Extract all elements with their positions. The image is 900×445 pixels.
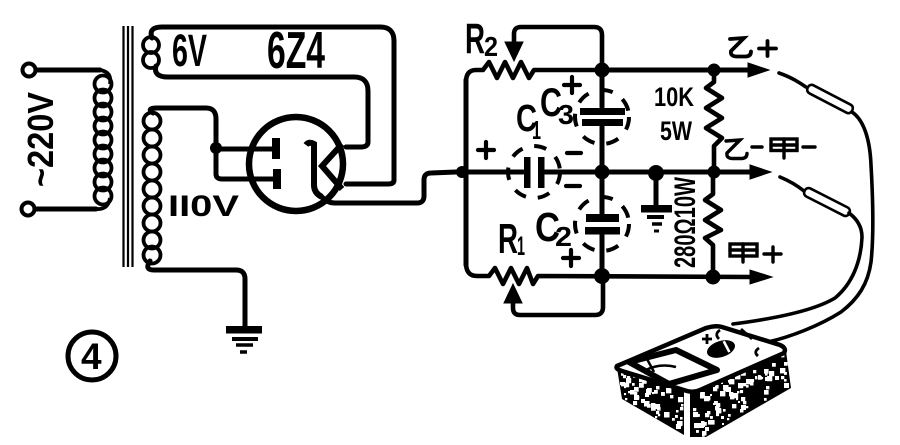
left rail: [464, 80, 469, 265]
ground filter: [641, 205, 672, 231]
svg-text:R: R: [498, 215, 518, 262]
meter terminal arc 2: [756, 348, 759, 356]
ground under transformer: [226, 326, 262, 352]
transformer 6V winding: [143, 37, 159, 68]
svg-text:5W: 5W: [660, 116, 692, 146]
wire node A to tube anode 2: [216, 148, 274, 179]
arrow output B+: [748, 63, 769, 77]
wire 6V top loop to tube plate lower arm: [151, 27, 394, 184]
multimeter top face: [617, 326, 785, 392]
test lead 2 tail: [733, 213, 862, 324]
wire cathode to node B: [322, 172, 456, 203]
meter stray tick: [741, 329, 752, 339]
C1 minus: [566, 184, 580, 188]
node A junction: [210, 142, 222, 154]
C1 dashed circle: [508, 146, 560, 198]
test lead 2 from mid: [780, 177, 804, 191]
label yi- jia-: [726, 139, 815, 159]
node C junction: [595, 63, 610, 78]
ground stub filter: [654, 180, 659, 205]
multimeter window: [629, 350, 717, 384]
test lead 1 from B+: [779, 73, 806, 87]
multimeter side speckle texture: [620, 354, 789, 437]
middle rail left: [466, 170, 523, 175]
C3 dashed circle: [575, 90, 629, 144]
tube anode bar 1: [272, 138, 280, 159]
svg-text:1: 1: [532, 115, 541, 145]
wire: [35, 207, 96, 212]
plug 2: [803, 187, 852, 218]
C2 plus: [563, 250, 579, 266]
transformer core: [124, 26, 133, 267]
capacitor C3: [600, 70, 605, 107]
svg-text:~220V: ~220V: [20, 92, 61, 187]
svg-text:6Z4: 6Z4: [267, 22, 325, 80]
svg-text:R: R: [465, 15, 485, 63]
node G junction: [708, 166, 721, 179]
svg-text:280Ω10W: 280Ω10W: [669, 177, 702, 268]
arrow output jia+: [750, 270, 772, 284]
figure number 4: [68, 332, 116, 380]
meter knob: [705, 337, 738, 361]
R2 wiper wire: [514, 27, 602, 66]
transformer primary winding: [95, 70, 112, 209]
svg-text:2: 2: [555, 221, 572, 252]
rheostat R2: [466, 62, 600, 82]
tube cathode: [306, 143, 322, 197]
C3 plus: [564, 77, 580, 93]
R1 wiper wire: [513, 281, 603, 315]
tube 6Z4 envelope U1: [249, 117, 343, 211]
node H junction: [594, 268, 610, 284]
wire node A to tube anode 1: [216, 147, 272, 152]
C2 dashed circle: [575, 197, 629, 251]
wire: [36, 68, 100, 73]
terminal top-left: [23, 64, 36, 77]
svg-text:II0V: II0V: [168, 190, 239, 223]
svg-text:1: 1: [517, 231, 525, 261]
meter terminal arc 1: [717, 330, 720, 339]
tube plate chevron: [322, 144, 342, 189]
R1 wiper arrow: [504, 284, 522, 303]
C2 minus: [565, 151, 569, 155]
meter needle: [646, 359, 676, 372]
svg-text:6V: 6V: [172, 25, 207, 76]
test lead 1 tail: [758, 112, 873, 346]
node F junction: [648, 165, 664, 181]
svg-text:4: 4: [81, 336, 102, 377]
tube anode bar 2: [273, 169, 281, 189]
wire 110V top to node A: [150, 108, 216, 148]
resistor 280ohm 10W: [705, 172, 721, 277]
wire 110V bottom to ground: [148, 261, 245, 326]
meter plus mark: [702, 334, 712, 344]
multimeter body dark sides: [617, 368, 684, 435]
terminal bottom-left: [22, 203, 35, 216]
wire 6V bottom to tube plate upper arm: [156, 66, 369, 147]
svg-text:2: 2: [484, 31, 498, 62]
svg-text:10K: 10K: [654, 82, 694, 112]
top rail: [600, 68, 750, 73]
node I junction: [706, 270, 721, 285]
node B junction: [456, 166, 468, 178]
C3 minus: [567, 151, 581, 155]
svg-text:3: 3: [558, 99, 574, 130]
transformer 110V winding: [144, 113, 161, 264]
node D junction: [708, 64, 721, 77]
C1 plus: [478, 142, 494, 158]
arrow output mid: [750, 165, 771, 179]
node E junction: [595, 165, 610, 180]
capacitor C2: [600, 172, 605, 214]
bottom rail / rheostat R1: [466, 263, 752, 284]
plug 1: [806, 83, 855, 114]
resistor 10K 5W: [706, 70, 722, 172]
label yi+ top: [730, 38, 776, 57]
label jia+: [730, 244, 781, 262]
capacitor C1: [524, 157, 531, 188]
R2 wiper arrow: [505, 42, 523, 61]
